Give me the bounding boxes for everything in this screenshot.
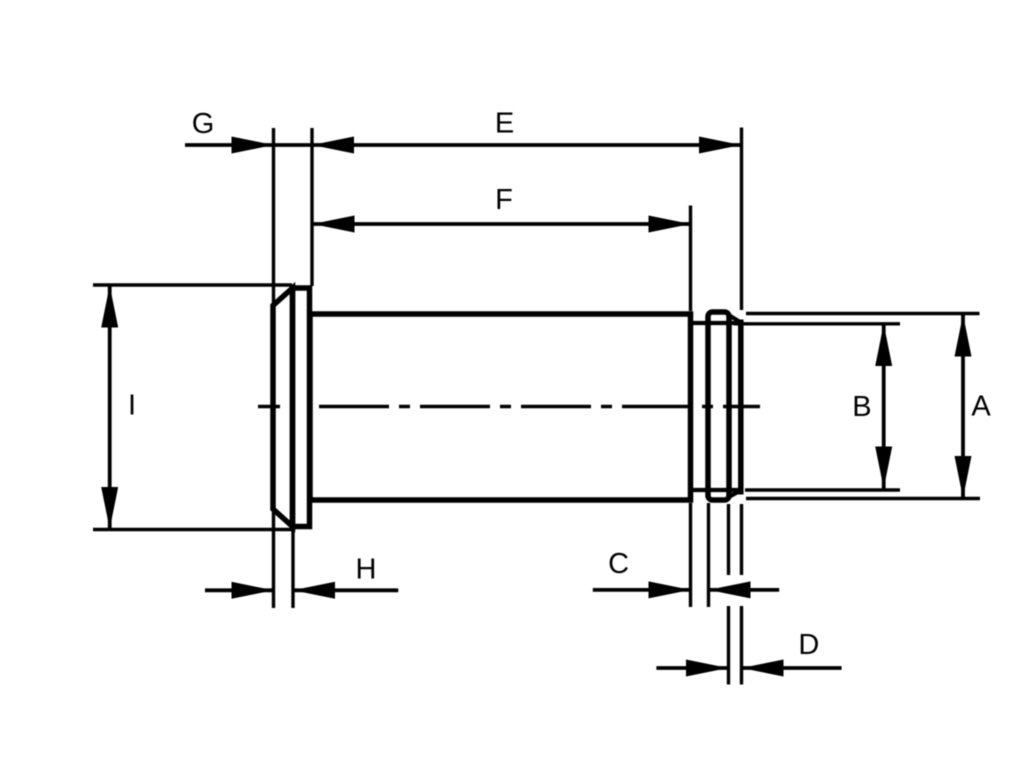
arrow H right-tip xyxy=(232,582,274,599)
arrow I up-tip xyxy=(101,286,118,328)
extension line D left lower xyxy=(727,606,730,685)
dimension line B xyxy=(882,324,886,489)
dimension line C right part xyxy=(709,588,780,592)
arrow E right-tip xyxy=(699,137,741,154)
arrow A up-tip xyxy=(955,315,972,357)
flange chamfered lip xyxy=(273,288,293,527)
arrow D left-tip xyxy=(742,660,784,677)
neck bottom edge xyxy=(691,488,740,492)
extension line F right xyxy=(689,206,692,312)
arrow C left-tip xyxy=(709,581,751,598)
dimension line H left part xyxy=(205,588,274,592)
extension line A bottom xyxy=(746,497,980,500)
tip end face xyxy=(738,320,744,495)
svg-text:F: F xyxy=(495,184,513,216)
extension line I bottom xyxy=(93,528,292,531)
extension line C left xyxy=(689,503,692,607)
arrow E left-tip xyxy=(312,137,354,154)
arrow G right-tip xyxy=(232,137,274,154)
dimension line D left part xyxy=(656,666,728,670)
arrow C right-tip xyxy=(649,581,691,598)
tip chamfer top xyxy=(730,316,743,324)
dimension line C left part xyxy=(593,588,691,592)
extension line D right lower xyxy=(740,606,743,685)
svg-text:A: A xyxy=(971,391,991,423)
extension line A top xyxy=(746,312,980,315)
dimension line F xyxy=(313,222,691,226)
arrow H left-tip xyxy=(293,582,335,599)
dimension line A xyxy=(961,315,965,499)
arrow F right-tip xyxy=(649,216,691,233)
collar ring xyxy=(708,312,729,500)
extension line H left xyxy=(272,511,275,608)
tip chamfer bottom xyxy=(730,490,743,497)
extension line D right upper xyxy=(740,504,743,575)
extension line D left upper xyxy=(727,504,730,575)
extension line H right xyxy=(291,529,294,608)
extension line E right xyxy=(740,128,743,311)
extension line I top xyxy=(93,283,292,286)
centerline xyxy=(258,405,280,408)
svg-text:D: D xyxy=(798,629,819,661)
svg-text:B: B xyxy=(852,391,871,423)
extension line G left xyxy=(272,128,275,303)
svg-text:G: G xyxy=(192,108,215,140)
extension line B top xyxy=(734,322,900,325)
extension line G right / E left xyxy=(310,128,313,286)
flange body (left head of bushing) xyxy=(293,288,310,527)
neck top edge xyxy=(691,321,740,325)
svg-text:E: E xyxy=(495,108,514,140)
arrow B down-tip xyxy=(875,447,892,489)
arrow A down-tip xyxy=(955,456,972,498)
extension line C right xyxy=(707,503,710,607)
arrow D right-tip xyxy=(686,660,728,677)
arrow I down-tip xyxy=(101,487,118,529)
dimension line H right part xyxy=(293,588,398,592)
extension line B bottom xyxy=(745,488,900,491)
svg-text:I: I xyxy=(128,389,136,421)
arrow B up-tip xyxy=(875,324,892,366)
dimension line G/E xyxy=(185,143,741,147)
dimension line I xyxy=(108,286,112,530)
svg-text:H: H xyxy=(356,554,377,586)
arrow F left-tip xyxy=(313,216,355,233)
dimension line D right part xyxy=(742,666,842,670)
svg-text:C: C xyxy=(608,548,629,580)
barrel (main cylinder) xyxy=(310,314,691,500)
